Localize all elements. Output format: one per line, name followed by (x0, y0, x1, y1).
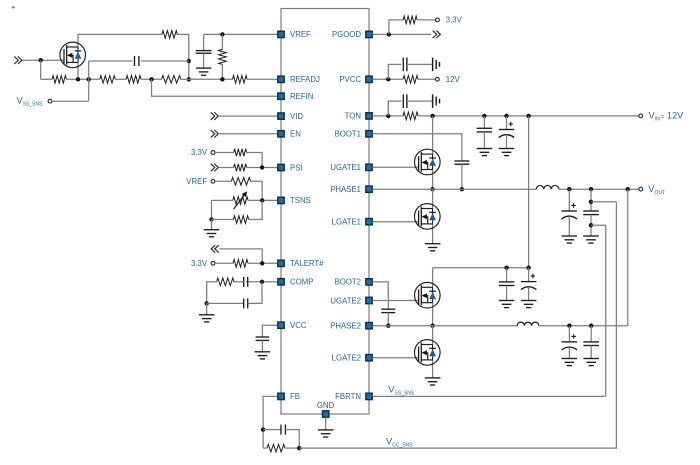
resistor R4 (100, 76, 116, 84)
thermistor RT1 arrow (234, 191, 248, 209)
wire R4 to R5 (115, 78, 126, 80)
capacitor C10 (VIN electrolytic) ground (499, 149, 515, 156)
resistor R15 (PGOOD pullup) (403, 16, 417, 24)
node R2 bottom junction (220, 77, 224, 81)
node PVCC junction (386, 77, 390, 81)
pin LGATE2 (366, 355, 372, 361)
wire M1 source down (77, 62, 79, 79)
svg-text:PHASE1: PHASE1 (330, 185, 361, 194)
wire C2 row right (141, 60, 189, 62)
svg-text:REFIN: REFIN (290, 92, 313, 101)
wire Q3 source (432, 303, 434, 326)
svg-text:BOOT2: BOOT2 (335, 278, 361, 287)
svg-text:UGATE1: UGATE1 (330, 163, 361, 172)
node boot1 phase junction (460, 187, 464, 191)
svg-text:PGOOD: PGOOD (332, 30, 361, 39)
node comp lower junction (205, 301, 209, 305)
wire VIN down feed (528, 116, 530, 268)
resistor R7 (REFADJ) (233, 76, 248, 84)
wire R8 to PSI node (247, 153, 263, 168)
wire VIN line (418, 115, 639, 117)
resistor R13 (comp) (217, 278, 234, 286)
wire R13 to left corner (207, 282, 217, 304)
pin REFIN (278, 93, 284, 99)
capacitor C2 (feedback) (135, 56, 139, 66)
capacitor C10 (VIN electrolytic) (499, 116, 514, 149)
wire input to R3 (41, 78, 52, 80)
capacitor C14 (boot2) (381, 309, 395, 312)
wire thermistor to TSNS pin (248, 199, 278, 201)
wire 12V feed row (433, 267, 529, 269)
capacitor C16 (phase2 electrolytic) (521, 268, 537, 301)
wire VOUT line (559, 188, 639, 190)
svg-text:VOUT: VOUT (648, 184, 665, 196)
node boot2 phase junction (386, 324, 390, 328)
capacitor C17 (ph2 out electrolytic) ground (562, 359, 578, 366)
node sense- junction (589, 223, 593, 227)
resistor R8 (PSI pullup) (234, 149, 247, 157)
wire PHASE1 line (372, 188, 536, 190)
wire Q1 drain (432, 116, 434, 154)
capacitor C4 (comp 2) (244, 298, 248, 308)
wire LGATE2 (372, 357, 418, 359)
resistor R17 (TON set) (403, 112, 418, 120)
wire TSNS ground lead (211, 220, 213, 230)
wire sense+ to VCC_SNS (591, 201, 616, 203)
wire R5 to node (141, 78, 162, 80)
pin VCC (278, 322, 284, 328)
wire Q1 source (432, 170, 434, 190)
node R1 corner mid (187, 59, 191, 63)
wire PVCC (372, 78, 403, 80)
svg-text:VID: VID (290, 112, 303, 121)
wire LGATE1 (372, 221, 418, 223)
pin PHASE2 (366, 323, 372, 329)
wire EN (218, 133, 277, 135)
chevron PSI input (211, 164, 219, 172)
ground VCC (255, 352, 271, 359)
node PSI junction (260, 165, 264, 169)
resistor R14 (feedback) (267, 444, 285, 452)
wire gate input row (22, 59, 64, 61)
resistor R3 (52, 76, 66, 84)
capacitor C5 (VCC bypass) (256, 337, 270, 340)
ground PVCC (sideways) (433, 58, 440, 72)
ground COMP (199, 315, 215, 322)
node FB cap junction (261, 427, 265, 431)
svg-text:REFADJ: REFADJ (290, 75, 320, 84)
chevron PGOOD output (433, 31, 441, 39)
thermistor RT1 (233, 197, 248, 205)
svg-text:FBRTN: FBRTN (335, 392, 361, 401)
wire C1 top lead (203, 34, 205, 50)
svg-text:VREF: VREF (186, 177, 207, 186)
capacitor C3 (comp) (244, 277, 248, 287)
wire C4 left lead (207, 302, 244, 304)
transistor Q5 (soft-start MOSFET) (60, 42, 86, 68)
wire BOOT2 (372, 282, 388, 309)
wire REFIN (152, 79, 278, 96)
wire Q4 drain (432, 326, 434, 345)
svg-text:3.3V: 3.3V (446, 16, 463, 25)
ground GND pin (318, 430, 334, 437)
wire R2 bottom lead (221, 64, 223, 79)
pin PGOOD (366, 31, 372, 37)
svg-text:VIN= 12V: VIN= 12V (649, 111, 685, 123)
svg-text:3.3V: 3.3V (191, 148, 208, 157)
wire PHASE2 line (372, 325, 517, 327)
svg-text:PHASE2: PHASE2 (330, 322, 361, 331)
wire R11 right to TSNS node (249, 200, 263, 219)
input chevron (soft-start input) (14, 56, 22, 64)
capacitor C13 (VOUT ceramic) (583, 189, 599, 236)
wire TALERT chevron (220, 249, 263, 263)
node M1 source junction (76, 77, 80, 81)
svg-text:TALERT#: TALERT# (290, 259, 324, 268)
wire TON cap branch (388, 101, 401, 116)
capacitor C18 (ph2 out ceramic) (584, 326, 600, 359)
wire C6 right lead (285, 430, 299, 449)
node VSS sense junction (87, 77, 91, 81)
transistor Q3 (high-side 2) (415, 282, 441, 308)
wire PSI chevron to R9 (218, 167, 233, 169)
resistor R5 (126, 76, 141, 84)
wire C2 row left (89, 60, 133, 62)
wire R11 left lead (212, 219, 234, 221)
pin BOOT2 (366, 279, 372, 285)
wire Q2 drain (432, 189, 434, 208)
capacitor C12 (VOUT electrolytic) ground (562, 236, 578, 243)
wire C5 to ground (261, 340, 263, 351)
wire R7 to REFADJ pin (247, 78, 278, 80)
pin COMP (278, 279, 284, 285)
wire R9 to PSI pin (247, 167, 278, 169)
capacitor C16 (phase2 electrolytic) ground (521, 301, 537, 308)
node phase1 junction (430, 187, 434, 191)
svg-text:TON: TON (345, 112, 361, 121)
chevron VID input (211, 112, 219, 120)
transistor Q1 (high-side 1) (415, 149, 441, 175)
ground Q4 source (425, 378, 441, 385)
svg-text:VREF: VREF (290, 30, 311, 39)
capacitor C18 (ph2 out ceramic) ground (583, 359, 599, 366)
pin BOOT1 (366, 131, 372, 137)
node R1 corner bottom (187, 77, 191, 81)
node VIN cap2 junction (504, 114, 508, 118)
node sense+ junction (589, 200, 593, 204)
wire R14 right lead (285, 447, 299, 449)
capacitor C9 (VIN bulk) ground (477, 149, 493, 156)
svg-text:UGATE2: UGATE2 (330, 296, 361, 305)
capacitor C15 (phase2 bulk) ground (499, 301, 515, 308)
wire VCC_SNS line (299, 202, 616, 448)
chevron EN input (211, 130, 219, 138)
terminal 3.3V TALERT (211, 261, 215, 265)
wire C8 to ground (407, 100, 433, 102)
svg-text:LGATE1: LGATE1 (332, 218, 361, 227)
wire VREF to R10 (215, 180, 231, 182)
node input junction (39, 58, 43, 62)
wire input node down (40, 60, 42, 79)
wire R12 to TALERT pin (248, 262, 278, 264)
node feed corner junction (526, 266, 530, 270)
wire UGATE2 (372, 300, 418, 302)
wire C14 to PHASE2 (387, 313, 389, 326)
wire TSNS left vertical (211, 200, 213, 219)
wire Q3 drain (432, 268, 434, 288)
svg-text:FB: FB (290, 392, 300, 401)
capacitor C17 (ph2 out electrolytic) (562, 326, 578, 359)
capacitor C7 (PVCC bypass) (403, 58, 407, 72)
pin FBRTN (366, 393, 372, 399)
svg-text:VSS_SNS: VSS_SNS (17, 96, 44, 108)
svg-text:BOOT1: BOOT1 (335, 130, 361, 139)
capacitor C12 (VOUT electrolytic) (562, 189, 578, 236)
node feed cap1 junction (504, 266, 508, 270)
wire C1 bottom lead (203, 53, 205, 68)
pin EN (278, 131, 284, 137)
wire R6 to R7 (181, 78, 233, 80)
resistor R2 (VREF load) (219, 49, 227, 64)
resistor R16 (PVCC feed) (403, 76, 418, 84)
wire R10 to TSNS node (251, 181, 263, 200)
wire thermistor left (212, 199, 233, 201)
chevron TALERT output (211, 245, 219, 253)
pin PSI (278, 164, 284, 170)
pin GND (323, 411, 329, 417)
node COMP junction (260, 280, 264, 284)
wire sense- to VSS_SNS (591, 225, 606, 396)
node ph2 cap1 junction (567, 324, 571, 328)
wire FB pin (263, 396, 278, 448)
terminal 3.3V PGOOD (436, 18, 440, 22)
svg-text:12V: 12V (446, 75, 461, 84)
pin FB (278, 393, 284, 399)
node VIN cap1 junction (482, 114, 486, 118)
svg-text:PSI: PSI (290, 163, 303, 172)
resistor R10 (TSNS bias) (231, 178, 250, 186)
wire R3 to R4 (66, 78, 99, 80)
svg-text:VCC: VCC (290, 321, 307, 330)
pin TON (366, 113, 372, 119)
pin UGATE1 (366, 164, 372, 170)
terminal VREF (211, 179, 215, 183)
terminal VSS_SNS (48, 99, 52, 103)
node phase2 junction (430, 324, 434, 328)
svg-text:COMP: COMP (290, 278, 313, 287)
wire phase2 out line (539, 325, 628, 327)
wire 3.3V to R8 (215, 152, 234, 154)
node vout cap2 junction (589, 187, 593, 191)
wire PGOOD (372, 33, 431, 35)
node VREF line (220, 32, 224, 36)
ground Q2 source (425, 244, 441, 251)
wire R1 to corner down (177, 34, 189, 79)
wire C11 to PHASE1 (461, 164, 463, 189)
svg-text:VSS_SNS: VSS_SNS (388, 384, 415, 396)
wire VID (218, 115, 277, 117)
resistor R11 (parallel TSNS) (233, 216, 248, 224)
wire COMP pin (246, 281, 278, 283)
wire R14 left lead (263, 447, 267, 449)
pin PVCC (366, 76, 372, 82)
wire M1 drain to top row (78, 34, 162, 47)
capacitor C11 (boot1) (454, 161, 469, 164)
wire PGOOD pullup vertical (389, 20, 403, 35)
resistor R1 (top feedback) (162, 31, 177, 39)
resistor R6 (162, 76, 181, 84)
IC body (PWM controller) (281, 9, 369, 415)
capacitor C9 (VIN bulk) (477, 116, 493, 149)
transistor Q4 (low-side 2) (415, 340, 441, 366)
wire PVCC cap branch (388, 64, 401, 79)
ground C1 (196, 68, 212, 75)
wire VCC pin (262, 325, 277, 337)
node TON junction (386, 114, 390, 118)
pin REFADJ (278, 76, 284, 82)
node ph2 cap2 junction (589, 324, 593, 328)
node PGOOD junction (387, 32, 391, 36)
resistor R12 (TALERT pullup) (233, 260, 248, 268)
transistor Q2 (low-side 1) (415, 204, 441, 230)
wire TON (372, 115, 403, 117)
wire 3.3V to R12 (215, 262, 233, 264)
terminal 3.3V PSI (211, 151, 215, 155)
node TSNS junction (260, 198, 264, 202)
ground TON (sideways) (433, 94, 440, 108)
terminal 12V (436, 77, 440, 81)
node vout cap1 junction (567, 187, 571, 191)
node Q1 drain junction (430, 114, 434, 118)
pin PHASE1 (366, 186, 372, 192)
small mark (top-left artifact) (12, 6, 15, 8)
wire C4 right lead (248, 282, 262, 304)
svg-text:VCC_SNS: VCC_SNS (386, 436, 413, 448)
ground TSNS (204, 230, 220, 237)
wire VSS_SNS (52, 100, 89, 102)
svg-text:PVCC: PVCC (339, 75, 361, 84)
wire Q4 source (432, 360, 434, 378)
node VIN feed junction (526, 114, 530, 118)
wire VREF line (204, 33, 278, 35)
wire GND lead (325, 417, 327, 430)
capacitor C15 (phase2 bulk) (499, 268, 515, 301)
terminal VOUT (639, 187, 643, 191)
wire UGATE1 (372, 166, 418, 168)
wire R16 to 12V (418, 78, 436, 80)
pin UGATE2 (366, 297, 372, 303)
pin TSNS (278, 197, 284, 203)
wire VSS vertical (88, 61, 90, 101)
resistor R9 (PSI series) (234, 164, 247, 172)
wire C6 left lead (263, 429, 281, 431)
capacitor C13 (VOUT ceramic) ground (583, 236, 599, 243)
inductor L2 (517, 322, 539, 326)
pin TALERT# (278, 260, 284, 266)
svg-text:LGATE2: LGATE2 (332, 354, 361, 363)
wire C7 to ground (407, 63, 433, 65)
capacitor C8 (TON) (403, 94, 407, 108)
svg-text:GND: GND (317, 401, 335, 410)
wire R15 to 3.3V (417, 19, 435, 21)
svg-text:EN: EN (290, 130, 301, 139)
wire FBRTN / VSS_SNS line (372, 395, 605, 397)
node TALERT junction (260, 261, 264, 265)
terminal VIN (639, 114, 643, 118)
node VCC_SNS junction (297, 446, 301, 450)
capacitor C1 (VREF decoupling) (196, 51, 212, 54)
pin LGATE1 (366, 219, 372, 225)
inductor L1 (536, 185, 559, 189)
wire comp ground lead (206, 303, 208, 314)
svg-text:3.3V: 3.3V (191, 259, 208, 268)
wire BOOT1 (372, 134, 462, 161)
wire C3 to R13 (234, 281, 244, 283)
wire Q2 source (432, 224, 434, 244)
pin VID (278, 113, 284, 119)
pin VREF (278, 31, 284, 37)
capacitor C6 (feedback) (281, 425, 285, 435)
node vout feed junction (626, 187, 630, 191)
wire R2 top lead (221, 34, 223, 49)
node REFIN junction (149, 77, 153, 81)
svg-text:TSNS: TSNS (290, 196, 311, 205)
node R11 left junction (209, 217, 213, 221)
wire VOUT down feed (627, 189, 629, 326)
